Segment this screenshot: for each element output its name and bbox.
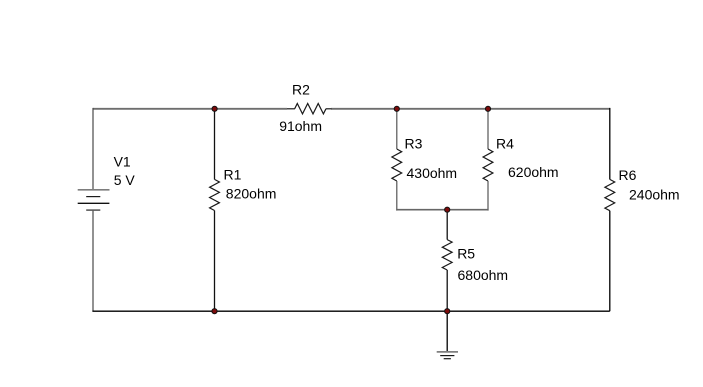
wire left vertical lower (battery bottom to bottom wire) bbox=[92, 210, 94, 311]
resistor R1 bbox=[210, 179, 220, 210]
ground bbox=[437, 352, 458, 359]
node junction dot at R5 top bbox=[445, 207, 450, 212]
battery V1 bbox=[78, 190, 110, 210]
wire right vertical below R6 bbox=[609, 211, 611, 312]
node junction dot at ground stem bbox=[445, 309, 450, 314]
wire R3 branch upper lead bbox=[396, 109, 398, 149]
svg-text:620ohm: 620ohm bbox=[508, 164, 559, 180]
wire connecting R3 and R4 bottoms (node to R5) bbox=[396, 209, 488, 211]
wire R1 branch upper lead bbox=[214, 109, 216, 180]
resistor R3 bbox=[392, 149, 402, 181]
wire R4 branch upper lead bbox=[487, 109, 489, 149]
resistor R4 bbox=[483, 149, 493, 181]
wire ground stem below bottom rail bbox=[446, 311, 448, 351]
resistor R6 bbox=[605, 179, 615, 210]
wire right vertical (top-right corner through R6 to bottom) bbox=[609, 108, 611, 179]
resistor R5 bbox=[442, 240, 452, 270]
svg-text:R2: R2 bbox=[292, 82, 310, 98]
node junction dot at R4 top bbox=[485, 106, 490, 111]
svg-text:R3: R3 bbox=[405, 136, 423, 152]
wire bottom horizontal (ground net) bbox=[92, 310, 609, 312]
svg-text:5 V: 5 V bbox=[114, 172, 136, 188]
svg-text:820ohm: 820ohm bbox=[226, 186, 277, 202]
node junction dot at R3 top bbox=[394, 106, 399, 111]
svg-text:R4: R4 bbox=[496, 136, 514, 152]
wire R5 lower lead bbox=[446, 270, 448, 311]
svg-text:240ohm: 240ohm bbox=[629, 186, 680, 202]
node junction dot at R1 bottom bbox=[212, 309, 217, 314]
svg-text:R6: R6 bbox=[619, 167, 637, 183]
wire R3 branch lower lead bbox=[396, 181, 398, 211]
resistor R2 bbox=[287, 104, 332, 114]
svg-text:680ohm: 680ohm bbox=[458, 267, 509, 283]
wire top horizontal left segment (node from V1+ to R2 left) bbox=[93, 108, 287, 110]
svg-text:V1: V1 bbox=[114, 153, 131, 169]
wire R1 branch lower lead bbox=[214, 211, 216, 312]
svg-text:R5: R5 bbox=[457, 246, 475, 262]
svg-text:R1: R1 bbox=[224, 167, 242, 183]
wire left vertical upper (top corner down to battery top plate) bbox=[92, 108, 94, 190]
svg-text:91ohm: 91ohm bbox=[279, 118, 322, 134]
wire top horizontal right segment (R2 right to top-right corner) bbox=[331, 108, 610, 110]
wire R5 upper lead bbox=[446, 210, 448, 240]
svg-text:430ohm: 430ohm bbox=[407, 165, 458, 181]
node junction dot at R1 top bbox=[212, 106, 217, 111]
wire R4 branch lower lead bbox=[487, 181, 489, 211]
